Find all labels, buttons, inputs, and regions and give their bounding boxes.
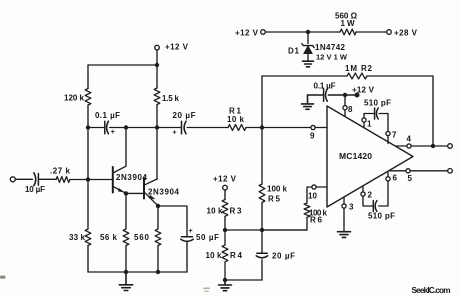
wire xyxy=(39,178,56,180)
svg-text:3: 3 xyxy=(349,203,354,212)
label 2N3904 Q2 xyxy=(148,188,180,197)
svg-text:12 V 1 W: 12 V 1 W xyxy=(316,53,348,62)
node D1 rail junction xyxy=(306,30,310,34)
label +12V opamp xyxy=(352,86,375,95)
label +12V mid rail xyxy=(235,28,259,37)
ground D1 xyxy=(303,61,314,67)
svg-text:+: + xyxy=(111,129,115,136)
wire 50uF bottom xyxy=(186,243,188,273)
terminal +12V R3 xyxy=(223,185,228,199)
resistor 560 xyxy=(155,229,161,246)
label plus 20uF xyxy=(173,130,177,137)
wire top rail left xyxy=(88,64,157,66)
node line A x157 xyxy=(155,125,159,129)
ground 0.1uF opamp xyxy=(302,95,314,109)
svg-text:33 k: 33 k xyxy=(69,233,86,242)
resistor R6 100k xyxy=(304,203,310,217)
wire R3 bottom xyxy=(224,216,226,230)
resistor .27k xyxy=(56,177,70,183)
node Q1 emitter junction xyxy=(124,191,128,195)
diode D1 1N4742 zener xyxy=(302,32,314,61)
node line A x262 xyxy=(260,125,264,129)
label 100k R5 xyxy=(267,185,288,194)
wire Q2 emitter to 50uF xyxy=(158,206,187,236)
wire x157 vertical xyxy=(156,65,158,179)
svg-text:560: 560 xyxy=(134,233,150,242)
label pin3 xyxy=(349,203,354,212)
svg-text:2N3904: 2N3904 xyxy=(148,188,180,197)
node line A x88 xyxy=(86,125,90,129)
wire top supply rail xyxy=(265,31,386,33)
resistor 33k xyxy=(85,229,91,246)
pin 3 xyxy=(342,197,346,231)
capacitor 10uF input xyxy=(34,173,39,186)
scan artifact near R4 ground xyxy=(203,288,210,293)
label 120k xyxy=(64,94,85,103)
label 12V 1W xyxy=(316,53,348,62)
label 50uF xyxy=(196,233,219,242)
transistor Q2 2N3904 xyxy=(144,178,158,206)
wire R5 bottom xyxy=(261,203,263,231)
label 20uF top xyxy=(173,111,196,120)
wire x126 down xyxy=(125,193,127,272)
terminal +12V mid rail xyxy=(261,30,266,35)
wire Q1 emitter to Q2 base xyxy=(126,192,143,194)
node base Q1 junction xyxy=(86,177,90,181)
pin 2 xyxy=(361,187,373,206)
wire bottom rail xyxy=(88,271,187,273)
label pin9 xyxy=(310,132,315,141)
capacitor 50uF xyxy=(181,237,193,241)
svg-text:+12 V: +12 V xyxy=(235,28,259,37)
wire x158 down xyxy=(157,206,159,272)
label +12V top left xyxy=(165,43,189,52)
wire xyxy=(15,178,32,180)
resistor 56k xyxy=(123,229,129,246)
svg-text:20 µF: 20 µF xyxy=(173,111,196,120)
ground R4 xyxy=(219,280,232,291)
svg-text:510 pF: 510 pF xyxy=(364,99,391,108)
resistor 120k xyxy=(85,89,91,106)
svg-text:.27 k: .27 k xyxy=(50,167,71,176)
resistor R5 100k xyxy=(259,184,265,203)
svg-text:MC1420: MC1420 xyxy=(339,151,372,161)
pin 1 xyxy=(362,114,374,128)
pin 5 output line xyxy=(390,169,452,174)
label 10k R1 xyxy=(227,115,245,124)
svg-text:10 k: 10 k xyxy=(206,251,223,260)
svg-text:50 µF: 50 µF xyxy=(196,233,219,242)
pin 7 xyxy=(379,114,390,144)
label +12V R3 xyxy=(213,174,237,183)
svg-text:100 k: 100 k xyxy=(267,185,288,194)
pin 6 xyxy=(379,172,390,206)
svg-text:10 k: 10 k xyxy=(227,115,245,124)
svg-text:4: 4 xyxy=(407,135,412,144)
svg-text:R4: R4 xyxy=(230,251,243,260)
label 100k R6 xyxy=(309,209,328,218)
pin 4 output line xyxy=(396,144,453,149)
svg-text:7: 7 xyxy=(392,131,397,140)
label 1M R2 xyxy=(345,64,373,73)
capacitor 0.1uF left xyxy=(105,121,109,134)
label +28V xyxy=(394,28,418,37)
ground pin 3 xyxy=(338,232,351,238)
label plus 50uF xyxy=(189,228,193,235)
node rail x225 xyxy=(223,228,227,232)
svg-text:D1: D1 xyxy=(288,47,300,56)
svg-text:1N4742: 1N4742 xyxy=(315,43,346,52)
node bottom rail x158 xyxy=(156,270,160,274)
svg-text:+: + xyxy=(173,130,177,137)
label 33k xyxy=(69,233,86,242)
wire left vertical x88 xyxy=(87,65,89,272)
label pin4 xyxy=(407,135,412,144)
label pin6 xyxy=(393,174,398,183)
svg-text:+12 V: +12 V xyxy=(165,43,189,52)
capacitor 510pF bottom xyxy=(373,201,377,212)
pin 8 xyxy=(343,95,347,117)
terminal +12V dot xyxy=(355,93,360,98)
label R4 xyxy=(230,251,243,260)
svg-text:1.5 k: 1.5 k xyxy=(162,94,180,103)
capacitor 20uF bottom xyxy=(256,230,268,280)
ground left section xyxy=(119,272,132,291)
svg-text:10 k: 10 k xyxy=(207,207,224,216)
label plus 0.1uF xyxy=(111,129,115,136)
svg-text:10 µF: 10 µF xyxy=(25,185,45,194)
resistor R1 10k xyxy=(228,125,246,131)
label 0.1uF opamp xyxy=(314,82,336,91)
svg-text:5: 5 xyxy=(408,174,413,183)
label 10k R4 xyxy=(206,251,223,260)
label pin10 xyxy=(308,192,318,201)
input terminal xyxy=(10,177,15,182)
pin 10 wire xyxy=(307,185,327,203)
node bottom rail x126 xyxy=(124,270,128,274)
node pin8 supply junction xyxy=(343,93,347,97)
svg-text:6: 6 xyxy=(393,174,398,183)
node line A x126 xyxy=(124,125,128,129)
pin 9 xyxy=(311,125,315,129)
svg-text:10: 10 xyxy=(308,192,318,201)
label 1.5k xyxy=(162,94,180,103)
svg-text:1: 1 xyxy=(367,120,372,129)
label 560 xyxy=(134,233,150,242)
label 1N4742 xyxy=(315,43,346,52)
svg-text:+12 V: +12 V xyxy=(213,174,237,183)
resistor 1.5k xyxy=(154,88,160,105)
svg-text:+28 V: +28 V xyxy=(394,28,418,37)
wire rail y280 xyxy=(225,279,262,281)
label MC1420 xyxy=(339,151,372,161)
svg-text:510 pF: 510 pF xyxy=(368,212,395,221)
svg-text:1 W: 1 W xyxy=(341,19,355,28)
svg-text:2N3904: 2N3904 xyxy=(116,173,148,182)
label pin5 xyxy=(408,174,413,183)
transistor Q1 2N3904 xyxy=(113,128,126,194)
label R1 xyxy=(229,107,242,116)
label SeekIC.com watermark xyxy=(412,286,451,295)
svg-text:8: 8 xyxy=(348,105,353,114)
label pin8 xyxy=(348,105,353,114)
capacitor 0.1uF opamp xyxy=(308,89,355,101)
label R3 xyxy=(230,207,243,216)
svg-text:0.1 µF: 0.1 µF xyxy=(314,82,336,91)
resistor R4 10k xyxy=(222,230,228,280)
wire x262 vertical R5 branch xyxy=(261,76,263,184)
svg-text:20 µF: 20 µF xyxy=(272,252,295,261)
label R6 xyxy=(310,216,323,225)
svg-text:9: 9 xyxy=(310,132,315,141)
wire mid rail y230 xyxy=(225,229,307,231)
wire xyxy=(70,179,112,181)
svg-text:R3: R3 xyxy=(230,207,243,216)
svg-text:+: + xyxy=(189,228,193,235)
label 510pF bottom xyxy=(368,212,395,221)
label 1W xyxy=(341,19,355,28)
svg-text:120 k: 120 k xyxy=(64,94,85,103)
node 12V rail junction xyxy=(155,63,159,67)
label 56k xyxy=(100,233,118,242)
svg-text:+12 V: +12 V xyxy=(352,86,375,95)
wire R6 bottom xyxy=(262,217,307,230)
label 0.1uF left xyxy=(95,111,120,120)
svg-text:R2: R2 xyxy=(361,64,373,73)
resistor R3 10k xyxy=(222,200,228,217)
svg-text:56 k: 56 k xyxy=(100,233,118,242)
terminal +12V top left xyxy=(155,45,160,65)
resistor R2 1M xyxy=(347,73,367,79)
label pin7 xyxy=(392,131,397,140)
wire line A xyxy=(88,127,327,129)
label 20uF bottom xyxy=(272,252,295,261)
node R4 bottom xyxy=(223,278,227,282)
label 2N3904 Q1 xyxy=(116,173,148,182)
capacitor 510pF top xyxy=(375,108,379,119)
label 10k R3 xyxy=(207,207,224,216)
op-amp U1 MC1420 triangle xyxy=(327,106,413,207)
svg-text:0.1 µF: 0.1 µF xyxy=(95,111,120,120)
node Q2 emitter junction xyxy=(156,204,160,208)
capacitor 20uF top xyxy=(182,121,187,134)
svg-text:SeekIC.com: SeekIC.com xyxy=(412,286,451,295)
terminal +28V xyxy=(387,30,392,35)
label 510pF top xyxy=(364,99,391,108)
label D1 xyxy=(288,47,300,56)
svg-text:2: 2 xyxy=(368,191,373,200)
svg-text:1 M: 1 M xyxy=(345,64,357,73)
label 560ohm xyxy=(335,12,358,21)
svg-text:R5: R5 xyxy=(268,195,281,204)
scan artifact left edge xyxy=(0,276,6,279)
label R5 xyxy=(268,195,281,204)
label 10uF xyxy=(25,185,45,194)
label pin2 xyxy=(368,191,373,200)
label pin1 xyxy=(367,120,372,129)
node rail x262 xyxy=(260,228,264,232)
resistor 560ohm 1W xyxy=(340,29,356,35)
wire R2 feedback line xyxy=(262,76,433,144)
label .27k xyxy=(50,167,71,176)
